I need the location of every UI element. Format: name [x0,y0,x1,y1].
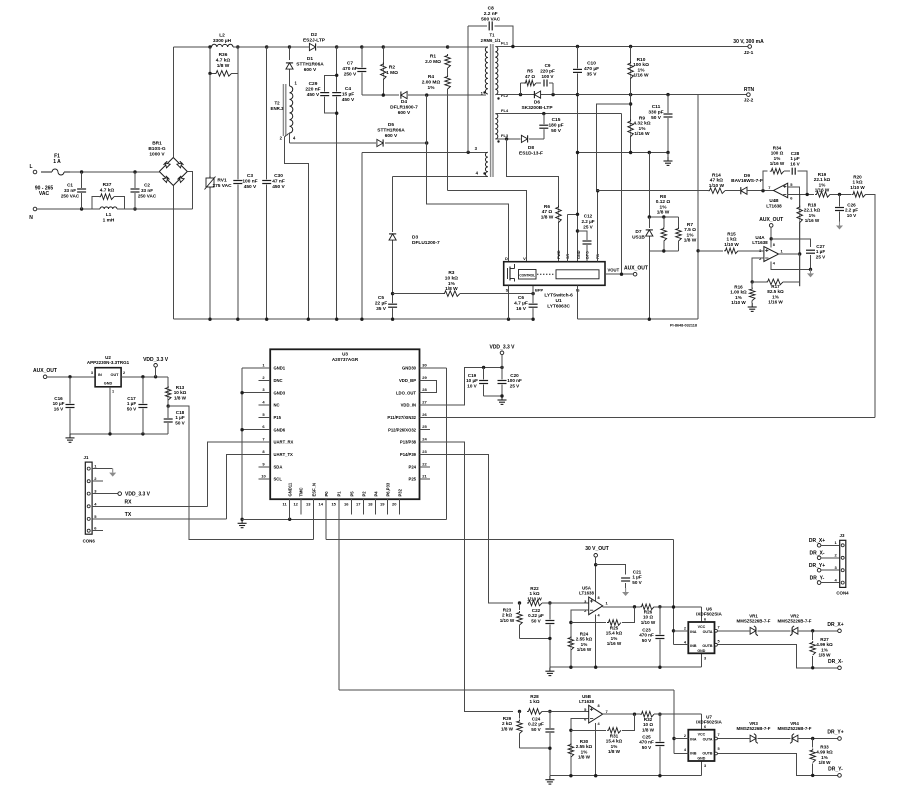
U6 pin 5 [718,640,720,644]
label CON6 [83,539,96,544]
label AUX_OUT U4A [759,217,783,223]
svg-text:1000 V: 1000 V [149,151,165,157]
wire OUTB to DR_X- [717,645,837,668]
connector J3 CON4 [840,540,846,587]
svg-text:100 nF: 100 nF [242,178,257,184]
label C17 [127,396,137,411]
junction R31 feedback [633,713,636,716]
wire [519,734,521,749]
resistor R32 [640,711,654,717]
svg-text:28: 28 [422,387,427,392]
label R1 [425,54,441,65]
svg-text:ESF_N: ESF_N [311,483,316,497]
label C27 [816,244,826,259]
svg-text:APP2230N-3.3TRG1: APP2230N-3.3TRG1 [87,360,130,365]
svg-text:10 kΩ: 10 kΩ [445,275,458,281]
svg-text:R3: R3 [448,270,454,276]
svg-text:4.7 kΩ: 4.7 kΩ [216,57,231,63]
svg-text:CONTROL: CONTROL [519,273,535,277]
label R2 [386,65,398,76]
svg-text:8: 8 [773,243,775,247]
wire aux to VOUT [621,114,623,275]
wire FB sense route [596,104,630,191]
junction R1 top [446,45,449,48]
junction FL2 return [576,93,579,96]
svg-text:29: 29 [422,375,427,380]
svg-text:2.0 MΩ: 2.0 MΩ [425,59,441,65]
svg-text:C1: C1 [67,183,73,188]
svg-text:C10: C10 [587,61,596,67]
svg-text:47 Ω: 47 Ω [525,74,535,79]
svg-text:OUT: OUT [110,373,119,377]
svg-text:PI-8648-032118: PI-8648-032118 [670,324,697,328]
svg-text:IXDF602SIA: IXDF602SIA [696,720,722,725]
resistor R9 [628,120,634,137]
wire U3 pin 30 stub [420,367,431,369]
wire OUTA row [717,630,749,632]
wire U1 IS pin [577,285,579,319]
label R26 [641,610,656,625]
label C3 [242,173,257,190]
wire U7 OUTA row [717,738,749,740]
junction R29 top [518,710,521,713]
resistor R17 [766,279,783,285]
svg-text:4.7 µF: 4.7 µF [514,300,528,306]
label DR_X+ [827,622,843,628]
wire to U4B output [747,190,774,192]
terminal J3 DR_X- [817,556,821,560]
U2 GND label [104,382,113,386]
svg-text:1/10 W: 1/10 W [731,300,746,305]
U5B input marks [590,708,593,710]
T1 pin FL2 [501,93,509,98]
T1 pin 3 [475,146,478,151]
resistor R37 [99,194,114,200]
wire 30V rail [495,46,749,48]
svg-text:SCL: SCL [274,477,283,482]
svg-text:50 V: 50 V [642,745,652,750]
wire sense bracket bottom [649,250,678,252]
svg-text:5: 5 [718,640,720,644]
T1 pin 2 [481,38,484,43]
wire J1 pin4 RX [92,505,208,507]
label D7 [632,229,645,240]
svg-text:1/8 W: 1/8 W [445,286,458,292]
fuse F1 [41,169,70,175]
wire T2 pin2 to bottom rail [284,133,308,319]
svg-text:35 V: 35 V [376,306,387,312]
svg-text:D9: D9 [744,173,750,179]
junction C11 top [666,93,669,96]
wire top rail seg7 [362,46,384,48]
svg-text:21: 21 [422,474,427,479]
U1 pin IS label [576,288,580,293]
T1 pin 4 [476,171,479,176]
wire R2 vertical [382,47,384,95]
label C16 [53,396,65,411]
bridge rectifier BR1 B10S-G [159,158,187,186]
svg-text:3: 3 [704,657,706,661]
wire P1 route down [673,690,675,754]
label DR_Y+ [827,730,843,736]
label J3 [840,533,845,538]
wire T2 pin4 stub [289,133,291,143]
resistor R2 [381,63,387,80]
svg-text:250 VAC: 250 VAC [61,193,80,198]
wire J1 pin2 stub [92,480,103,482]
wire snubber left leg [520,83,522,95]
zener VR3 MMSZ5226B-7-F [750,734,758,744]
svg-text:LT1638: LT1638 [579,591,594,596]
svg-text:17: 17 [356,502,361,507]
wire RTN vertical [697,95,699,320]
svg-text:GND: GND [104,382,113,386]
svg-text:L1: L1 [106,212,112,218]
wire ESF_N down [313,515,315,540]
svg-text:C5: C5 [378,295,384,301]
svg-text:CON6: CON6 [83,539,96,544]
junction C4 on rail [335,318,338,321]
wire 30V to U5A V+ [595,557,597,601]
junction C22 top [548,601,551,604]
U7 pin 4 [684,748,687,752]
wire P1 down [338,515,340,691]
wire U3 pin 2 stub [258,379,270,381]
junction C28 bottom [806,193,809,196]
label T1 [484,33,502,43]
varistor RV1 [205,176,216,190]
wire R13/C18 to ESF_N [168,406,313,539]
wire C18 column [167,406,169,434]
svg-text:0.12 Ω: 0.12 Ω [656,199,671,205]
svg-text:275 VAC: 275 VAC [212,183,232,189]
svg-text:OUTB: OUTB [702,752,713,756]
junction C1 bottom [80,207,83,210]
diode D9 BAV16WS-7-F [741,187,747,194]
capacitor C15 [539,124,548,129]
inductor L1 [100,207,117,209]
wire C26 vertical [839,194,841,221]
junction snubber right [551,93,554,96]
transformer T1 primary winding [485,47,488,94]
svg-text:L2: L2 [219,33,225,39]
wire U3 pin 25 stub [420,429,431,431]
wire to C27 [771,239,810,247]
wire to U7 INB [674,753,688,755]
svg-text:1/8 W: 1/8 W [657,210,670,216]
svg-text:4.32 kΩ: 4.32 kΩ [633,121,650,127]
svg-text:12: 12 [293,502,298,507]
wire P0 down [325,515,327,540]
wire D5 row left [290,142,377,144]
svg-text:C11: C11 [652,104,661,110]
junction C20 bottom [500,394,503,397]
junction C30 top [265,45,268,48]
resistor R22 [527,600,542,606]
label C29 [305,81,320,98]
junction sense bottom [648,318,651,321]
wire R23/C22 bottom bracket [520,637,550,639]
junction C6 on rail [531,318,534,321]
junction R27 top [811,629,814,632]
wire U6 GND [701,653,703,667]
svg-text:VOUT: VOUT [608,267,620,272]
wire C4 column [336,47,338,319]
junction S pin on rail [507,318,510,321]
wire IS return rail [578,318,699,320]
wire C12 branch to BPS [578,231,588,262]
driver U7 IXDF602SIA [688,730,714,761]
label R29 [501,716,514,731]
label VDD_3.3V U3 [489,345,515,351]
capacitor C22 [545,620,554,625]
wire pin6 row [788,193,814,195]
U5A pin 4 [598,614,601,618]
junction C16 top [68,375,71,378]
label D8 [519,145,543,156]
label R13 [174,385,187,400]
wire C15 vertical [543,114,545,139]
resistor R18 [797,206,803,223]
svg-text:UART_TX: UART_TX [274,452,294,457]
wire FL3 to FWD via R6 [507,139,559,262]
U6 OUTA label [703,630,713,634]
svg-text:33 nF: 33 nF [64,188,76,193]
label L1 [103,212,115,223]
terminal J3 DR_X+ [817,544,821,548]
svg-text:8: 8 [598,704,600,708]
junction C21 branch [594,563,597,566]
U6 pin 2 [684,627,686,631]
label R17 [767,284,784,305]
bridge diode BR1-d [178,176,185,183]
svg-text:INB: INB [690,752,697,756]
junction R33 bottom [811,774,814,777]
wire R31 to output [622,714,635,730]
wire U4A output [779,253,800,255]
svg-text:1%: 1% [660,204,668,210]
wire pin6 to R30 [571,719,589,776]
svg-text:7: 7 [718,626,720,630]
wire [625,583,627,588]
svg-text:C9: C9 [545,63,551,68]
svg-text:25 V: 25 V [583,224,593,229]
label CON4 [836,591,849,596]
label R3 [445,270,458,292]
svg-text:ENR.3: ENR.3 [271,106,284,111]
junction C2 bottom [133,207,136,210]
svg-text:1 mH: 1 mH [103,217,115,223]
svg-text:U3: U3 [342,352,348,357]
capacitor C28 [791,168,796,175]
U6 OUTA pin circle [715,629,718,632]
wire TX to UART_TX [227,454,271,519]
svg-text:50 V: 50 V [651,115,662,121]
wire C8 right [495,26,513,47]
svg-text:VDD_3.3 V: VDD_3.3 V [125,491,151,497]
svg-text:50 V: 50 V [551,128,562,134]
wire sense to IS rail [648,251,650,319]
T1 pin FL3 [501,133,509,138]
label RTN [744,87,755,93]
wire C23 column [659,607,661,667]
terminal DR_X- [838,666,842,670]
wire R29/C24 bottom bracket [520,747,550,749]
wire bridge - to bottom rail [172,186,174,320]
wire C17 vertical [142,377,144,434]
resistor R6 [556,206,562,223]
svg-text:BAV16WS-7-F: BAV16WS-7-F [731,178,763,184]
bridge diode BR1-c body [163,176,170,183]
wire R3 right [460,293,533,295]
U6 OUTB pin circle [715,643,718,646]
wire RV1 bottom [209,189,211,320]
svg-text:1/10 W: 1/10 W [724,242,739,247]
U7 OUTA pin circle [715,737,718,740]
svg-text:FWD: FWD [557,250,561,259]
T2 pin 1 [295,81,298,86]
wire VDD stub [155,367,157,377]
resistor R13 [165,386,171,400]
svg-text:AUX_OUT: AUX_OUT [759,217,783,223]
junction C2 top [133,170,136,173]
svg-text:1 A: 1 A [53,159,61,165]
label VR4 [778,721,812,731]
label R6 [541,204,554,220]
svg-text:1/16 W: 1/16 W [815,188,830,193]
op-amp U4B LT1638 (mirrored) [774,183,788,198]
svg-text:35 V: 35 V [587,71,598,77]
label C26 [845,203,858,218]
svg-text:DFLR1600-7: DFLR1600-7 [390,104,418,110]
svg-text:R1: R1 [430,54,436,60]
wire GND30 to column [430,367,447,369]
label VDD_3.3V U2 [143,357,169,363]
wire pin5 to R18 column [788,187,800,194]
resistor R4 [445,75,451,89]
capacitor C29 [320,92,329,97]
wire U3 pin 14 stub [325,499,327,514]
svg-text:LYT6063C: LYT6063C [547,304,570,310]
junction C23 bottom [658,666,661,669]
junction R10 top [629,45,632,48]
wire GND11 down [289,515,291,520]
wire bridge + to top rail [172,47,174,158]
T1 primary polarity dot [483,91,485,93]
U5B pin 7 [606,709,609,714]
junction C29 bottom [335,112,338,115]
svg-text:1/10 W: 1/10 W [850,185,865,190]
svg-text:25 V: 25 V [510,383,520,388]
U5A pin 3 [584,599,587,604]
junction C25 top [658,713,661,716]
U6 INB label [690,644,697,648]
junction R15 tap [696,249,699,252]
U4A input marks [765,249,768,251]
wire U3 pin 16 stub [351,499,353,514]
svg-text:2: 2 [123,371,125,375]
U5A input marks [590,600,593,602]
wire C3 vertical [237,73,239,319]
transformer T1 secondary FL1-FL2 [495,47,498,95]
wire BPP pin [532,285,534,293]
wire R31 row [571,729,606,731]
wire U7 GND [701,761,703,776]
diode D4 DFLR1600-7 [401,92,407,99]
capacitor C25 [655,742,664,747]
label TX [125,512,132,518]
wire R26 to VCC corner [654,606,702,608]
wire to INA [674,630,689,632]
label VR1 [737,614,771,624]
U5B pin 6 [584,716,587,721]
U1 dotted link [537,273,555,275]
label R20 [850,175,865,190]
resistor R33 [810,749,816,763]
junction C5 on rail [391,318,394,321]
capacitor C8 [488,21,493,30]
capacitor C21 [621,577,630,582]
svg-text:33 nF: 33 nF [141,188,153,193]
wire P11/P27 route to R20 [430,416,875,418]
wire R29 column [519,711,521,718]
svg-text:P1: P1 [337,491,342,497]
label C15 [548,117,563,134]
J3 pin 2 circle [841,556,844,559]
svg-text:DR_Y+: DR_Y+ [809,563,825,569]
label R31 [606,734,623,755]
T2 pin 2 [280,136,283,141]
svg-text:C15: C15 [552,117,561,123]
label J2-2 [744,98,754,104]
capacitor C27 [806,249,815,254]
wire [521,82,525,84]
wire R28 to pin5 [542,710,589,712]
wire U1 S to rail [508,285,510,319]
wire FL2 row [495,94,577,96]
svg-text:R4: R4 [428,74,434,80]
svg-text:1 MΩ: 1 MΩ [386,70,398,76]
label R8 [656,194,671,216]
svg-text:1/16 W: 1/16 W [770,161,785,166]
capacitor C16 [66,404,75,409]
label RV1 [212,178,232,189]
svg-text:27: 27 [422,400,427,405]
wire U3 ground bus [241,368,243,519]
junction C25 bottom [658,774,661,777]
junction U7 INA tap [672,737,675,740]
svg-text:VAC: VAC [39,191,50,197]
wire R25 to output [622,607,635,623]
wire C24 column [549,711,551,775]
U2 pin 2 [123,371,125,375]
wire R18 column pin5 to U4A out [799,194,801,286]
svg-text:8: 8 [598,596,600,600]
wire bridge AC2 to N [187,172,192,210]
label C11 [648,104,663,121]
label D5 [377,122,405,139]
wire U4A V+ pin [770,227,772,247]
capacitor C17 [138,404,147,409]
wire C16 vertical [69,377,71,434]
label C7 [342,61,357,78]
zener VR4 MMSZ5226B-7-F [790,734,798,744]
svg-text:TMC: TMC [299,487,304,496]
wire U3 pin 10 stub [258,478,270,480]
J1 pin 6 circle [87,529,90,532]
svg-text:D6: D6 [534,100,540,106]
svg-text:470 nF: 470 nF [342,66,357,72]
